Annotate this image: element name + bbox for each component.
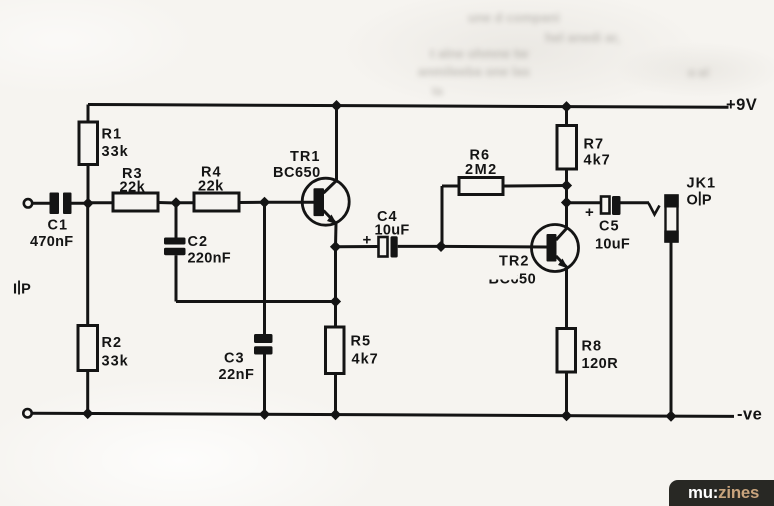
svg-text:33k: 33k — [102, 144, 129, 160]
node: C4 out / R6 / TR2 base junction — [435, 241, 446, 252]
svg-text:C3: C3 — [224, 351, 245, 367]
svg-text:4k7: 4k7 — [352, 352, 379, 368]
resistor R2 — [78, 203, 129, 413]
svg-text:+: + — [363, 232, 372, 249]
svg-text:R7: R7 — [584, 137, 605, 153]
svg-text:R1: R1 — [102, 127, 123, 143]
wire C1 to input node — [72, 202, 89, 205]
node: feedback joins emitter line — [330, 296, 341, 307]
svg-text:I|P: I|P — [13, 280, 31, 298]
transistor TR1 — [273, 149, 349, 225]
-ve rail terminal — [23, 409, 31, 417]
resistor R1 — [79, 105, 129, 204]
+9V rail — [88, 105, 729, 108]
svg-text:R5: R5 — [351, 334, 372, 350]
svg-text:22k: 22k — [198, 178, 224, 194]
bleed-through text smudges — [468, 10, 560, 25]
node: R4 output junction — [259, 197, 270, 208]
capacitor C1 — [30, 193, 73, 251]
wire R4 junction to TR1 base — [265, 201, 314, 204]
resistor R5 — [326, 302, 379, 415]
-ve rail — [31, 413, 734, 416]
wire node to TR2 base — [441, 245, 547, 249]
svg-text:BC650: BC650 — [273, 165, 321, 181]
wire input to C1 — [33, 202, 51, 205]
svg-text:470nF: 470nF — [30, 234, 73, 250]
wire emitter node to feedback node — [334, 247, 337, 302]
svg-text:C2: C2 — [188, 234, 209, 250]
svg-text:-ve: -ve — [737, 405, 762, 423]
node: input junction — [82, 198, 93, 209]
node: TR1 collector on rail — [331, 100, 342, 111]
svg-text:C1: C1 — [48, 218, 69, 234]
svg-text:C5: C5 — [599, 219, 620, 235]
jack JK1 — [664, 176, 716, 243]
node: C5 tap junction — [561, 197, 572, 208]
wire jack sleeve to -ve rail — [670, 243, 673, 417]
node: R5 bottom on -ve rail — [330, 409, 341, 420]
capacitor C2 — [164, 203, 231, 302]
svg-text:120R: 120R — [582, 356, 619, 372]
node: R7 top on +9V rail — [561, 101, 572, 112]
wire R3 junction to R4 — [176, 201, 194, 204]
capacitor C3 — [219, 202, 273, 414]
transistor TR2 — [486, 225, 579, 288]
svg-text:10uF: 10uF — [375, 223, 410, 239]
node: C3 bottom on -ve rail — [259, 409, 270, 420]
resistor R3 — [113, 166, 176, 211]
svg-text:+: + — [585, 204, 594, 221]
svg-text:220nF: 220nF — [188, 251, 231, 267]
svg-text:R2: R2 — [102, 335, 123, 351]
resistor R6 — [442, 148, 567, 247]
svg-text:JK1: JK1 — [687, 176, 717, 192]
resistor R8 — [557, 329, 618, 416]
wire TR2 emitter to R8 — [565, 269, 568, 329]
svg-text:22k: 22k — [120, 180, 146, 196]
capacitor C4 — [336, 209, 442, 258]
svg-text:2M2: 2M2 — [465, 162, 498, 178]
wire C5 node down to TR2 collector — [565, 203, 568, 229]
input terminal — [24, 199, 32, 207]
resistor R7 — [557, 107, 611, 186]
wire TR1 emitter down — [334, 224, 338, 248]
svg-text:R8: R8 — [582, 339, 603, 355]
resistor R4 — [194, 165, 264, 212]
svg-text:33k: 33k — [102, 354, 129, 370]
wire input node to R3 — [88, 201, 113, 204]
svg-text:TR1: TR1 — [290, 149, 320, 165]
node: emitter / C4 junction — [330, 241, 341, 252]
muzines logo — [669, 480, 774, 506]
node: R3/R4 junction — [170, 197, 181, 208]
node: R6 right / R7 bottom / TR2 collector — [561, 180, 572, 191]
svg-text:4k7: 4k7 — [584, 153, 611, 169]
wire TR1 collector to +9V rail — [335, 106, 338, 181]
wire R7 bottom to C5 node — [565, 186, 568, 203]
jack tip contact V — [649, 203, 660, 215]
svg-text:10uF: 10uF — [595, 237, 630, 253]
node: R8 bottom on -ve rail — [561, 410, 572, 421]
svg-text:+9V: +9V — [726, 96, 757, 114]
capacitor C5 — [567, 196, 650, 253]
node: jack on -ve rail — [665, 411, 676, 422]
node: R2 bottom on -ve rail — [82, 408, 93, 419]
svg-text:22nF: 22nF — [219, 367, 255, 383]
wire C2 to emitter line (feedback) — [176, 300, 336, 303]
svg-text:O|P: O|P — [687, 191, 712, 209]
